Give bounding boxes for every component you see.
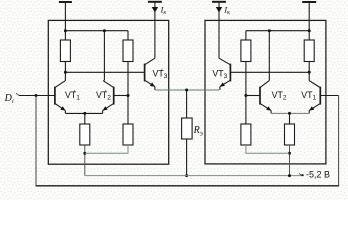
label Ik (left) <box>160 5 167 16</box>
current source Ik (right) <box>212 2 226 58</box>
wire <box>289 145 291 176</box>
wire <box>308 111 310 114</box>
label -5,2 V <box>306 170 330 180</box>
wire <box>154 87 156 90</box>
transistor VT1' <box>55 81 66 111</box>
node A (input node) <box>35 94 38 97</box>
resistor Re <box>182 118 193 139</box>
wire <box>36 185 340 187</box>
wire <box>338 96 340 186</box>
wire <box>65 30 128 32</box>
node junction <box>288 152 291 155</box>
node junction <box>185 89 188 92</box>
transistor VT2' (mirrored) <box>103 81 114 111</box>
wire <box>127 31 129 40</box>
wire <box>64 62 66 81</box>
node junction <box>83 112 86 115</box>
node junction <box>64 71 67 74</box>
wire <box>103 31 105 81</box>
node junction <box>83 152 86 155</box>
node junction <box>308 71 311 74</box>
label VT3' <box>153 68 168 80</box>
element 2 outline box (right cell) <box>205 20 326 164</box>
wire <box>65 112 102 114</box>
label VT2 <box>272 90 287 102</box>
node junction <box>185 174 188 177</box>
wire <box>245 31 247 40</box>
current source Ik (left) <box>148 2 162 58</box>
wire <box>64 111 66 114</box>
node junction <box>64 29 67 32</box>
node junction <box>103 29 106 32</box>
resistor R6 <box>304 40 314 62</box>
label Di (input) <box>4 93 14 105</box>
resistor R1 <box>60 40 70 62</box>
node junction <box>127 94 130 97</box>
wire <box>64 2 66 40</box>
node junction <box>268 29 271 32</box>
wire <box>320 95 338 97</box>
label VT2' <box>96 90 111 102</box>
wire <box>246 30 309 32</box>
wire <box>246 145 290 153</box>
wire <box>289 113 291 124</box>
wire <box>245 62 247 125</box>
wire <box>268 31 270 81</box>
label Re <box>193 125 203 137</box>
label VT3 <box>212 69 227 81</box>
wire <box>155 89 219 91</box>
label VT1 <box>301 90 316 102</box>
element 1 outline box (left cell) <box>48 20 168 164</box>
wire <box>84 113 86 124</box>
resistor R2 <box>123 40 133 62</box>
wire <box>186 139 188 176</box>
label VT1' <box>65 90 80 102</box>
resistor R5 <box>241 40 251 62</box>
node junction <box>288 112 291 115</box>
wire <box>19 95 55 97</box>
wire <box>246 95 260 97</box>
ground (top left) <box>59 1 72 3</box>
supply terminal tick <box>299 173 304 176</box>
wire <box>65 71 144 73</box>
resistor R7 <box>241 124 251 145</box>
svg-text:-5,2 В: -5,2 В <box>306 170 330 180</box>
wire <box>219 87 221 90</box>
resistor R8 <box>285 124 295 145</box>
wire <box>102 111 104 114</box>
resistor R3 <box>80 124 90 145</box>
wire <box>85 145 128 153</box>
wire <box>271 112 309 114</box>
label Ik (right) <box>223 5 230 16</box>
transistor VT3 (mirrored) <box>219 58 230 86</box>
transistor VT3' <box>145 58 155 86</box>
wire <box>308 2 310 40</box>
wire <box>270 111 272 114</box>
wire <box>308 62 310 81</box>
node junction <box>308 29 311 32</box>
node junction <box>288 174 291 177</box>
node junction <box>244 94 247 97</box>
wire <box>186 90 188 118</box>
input terminal tick <box>16 93 19 95</box>
wire <box>84 145 86 176</box>
ground (top right) <box>302 1 316 3</box>
transistor VT2 <box>260 81 271 111</box>
wire <box>35 96 37 186</box>
wire <box>127 62 129 125</box>
wire <box>230 71 309 73</box>
resistor R4 <box>123 124 133 145</box>
transistor VT1 (mirrored) <box>309 81 320 111</box>
wire (-5.2V rail) <box>85 175 302 177</box>
wire <box>114 95 128 97</box>
